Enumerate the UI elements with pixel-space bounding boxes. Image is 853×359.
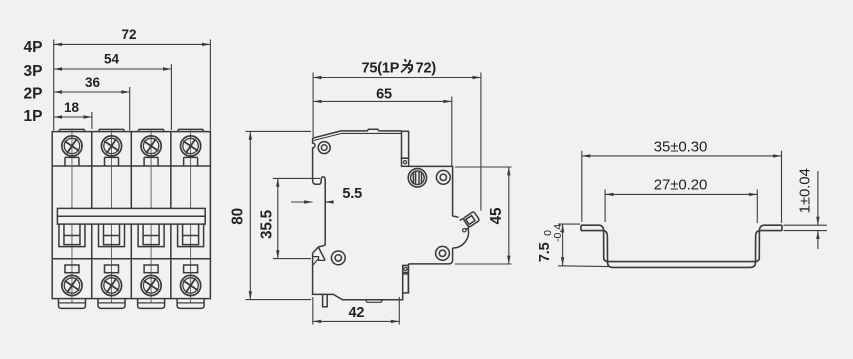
1 extension bottom (784, 230, 827, 232)
svg-text:2P: 2P (24, 86, 43, 103)
lower right outline (313, 253, 409, 300)
1 extension top (784, 224, 827, 226)
arrows 54 (54, 67, 62, 70)
arrows 5.5 (304, 200, 312, 203)
lever pivot dot (463, 229, 466, 232)
extension line face (65) (451, 97, 453, 167)
arrows 35 (582, 154, 590, 157)
dim line 65 (313, 100, 452, 102)
top chamfer inner line (314, 133, 402, 140)
arrows 27 (605, 193, 613, 196)
rivet front-bottom (436, 246, 450, 260)
bottom terminal slot bar (403, 274, 409, 293)
1 dim line upper (817, 171, 819, 225)
arrows 42 (313, 320, 321, 323)
breaker body outline (52, 132, 210, 299)
handle boss arc (453, 216, 469, 248)
dim line 45 (508, 167, 510, 264)
dim 5.5 leader left (291, 201, 313, 203)
rail upper surface (581, 225, 782, 261)
rivet bottom-left (331, 251, 345, 265)
arrows 72 (54, 43, 62, 46)
pole divider 2 (130, 132, 132, 299)
dim 5.5 leader right (325, 201, 333, 203)
7.5 extension bottom (558, 265, 609, 268)
extension line rail right end (781, 151, 783, 223)
svg-text:27±0.20: 27±0.20 (654, 176, 707, 193)
extension line 54 (170, 64, 172, 130)
svg-text:7.5: 7.5 (537, 242, 553, 262)
svg-text:36: 36 (85, 75, 101, 90)
upper right step to face (409, 166, 453, 216)
1 dim line lower (817, 231, 819, 249)
arrows 80 (249, 131, 252, 139)
dim line 7.5 (562, 224, 564, 265)
extension line back (left) (312, 73, 314, 138)
svg-text:54: 54 (104, 52, 120, 67)
pole 1 (58, 129, 85, 308)
dim line 35.5 (277, 178, 279, 258)
top terminal square (402, 158, 409, 166)
dim line 54 (54, 68, 172, 70)
pole 2 (98, 129, 125, 308)
svg-text:-0.4: -0.4 (552, 224, 564, 242)
arrows 35.5 (276, 178, 279, 186)
extension line 18 (91, 112, 93, 129)
dim line 72 (54, 43, 211, 45)
dim text 75(1P为72) (362, 59, 437, 76)
80 extension bottom (246, 299, 312, 301)
tolerance 0/-0.4 (rotated) (542, 224, 564, 242)
extension line 27 left (604, 190, 606, 223)
bottom terminal square (403, 265, 409, 272)
handle cross-bar band (57, 208, 205, 224)
top terminal pin dot (403, 161, 406, 164)
svg-text:35±0.30: 35±0.30 (654, 138, 707, 155)
bottom terminal pin dot (404, 267, 407, 270)
svg-text:4P: 4P (24, 39, 43, 56)
dim line 80 (249, 131, 251, 299)
svg-text:75(1P: 75(1P (362, 61, 400, 77)
pole divider 1 (91, 132, 93, 299)
arrows 36 (54, 90, 62, 93)
svg-text:5.5: 5.5 (342, 186, 362, 202)
svg-text:18: 18 (64, 100, 80, 115)
svg-text:35.5: 35.5 (258, 209, 275, 239)
42 extension right (398, 297, 400, 325)
toggle lever (460, 211, 480, 229)
top edge with lip (341, 129, 402, 131)
dim line 42 (313, 320, 400, 322)
DIN clip claw inner (313, 257, 325, 265)
arrows 75 (313, 76, 321, 79)
arrows 18 (54, 115, 62, 118)
grip circle with ridges (408, 169, 426, 187)
DIN clip claw (313, 245, 326, 260)
svg-text:45: 45 (488, 207, 505, 224)
pole 3 (138, 129, 165, 308)
dim line 35 (582, 155, 782, 157)
rail left end cap (580, 225, 582, 230)
arrows 7.5 (561, 224, 564, 232)
35.5 extension top (273, 177, 320, 179)
hanzi wei (401, 59, 412, 73)
35.5 extension bottom (273, 258, 311, 260)
svg-text:1P: 1P (24, 108, 43, 125)
45 extension top (455, 166, 512, 168)
45 extension bottom (455, 263, 512, 265)
rail right end cap (781, 225, 783, 230)
dim line 75 (313, 77, 481, 79)
bottom foot bump (366, 300, 383, 303)
dim line 36 (54, 91, 130, 93)
svg-text:42: 42 (349, 305, 365, 321)
svg-text:65: 65 (376, 86, 392, 102)
dim line 18 (54, 116, 92, 118)
arrows 65 (313, 100, 321, 103)
top terminal slot bar (402, 131, 409, 158)
svg-text:72): 72) (416, 61, 437, 77)
rail lower surface (581, 231, 782, 268)
arrows 1 (816, 217, 819, 225)
extension line left (53, 40, 55, 131)
top terminal section line (52, 165, 210, 167)
extension line handle tip (480, 73, 482, 211)
rivet front-top (436, 170, 450, 184)
80 extension top (246, 130, 312, 132)
7.5 extension top (558, 223, 580, 225)
lower face (408, 248, 452, 264)
extension line right 72 (209, 40, 211, 131)
extension line 36 (129, 87, 131, 131)
pole 4 (177, 129, 204, 308)
rivet top-left (318, 142, 330, 154)
svg-text:1±0.04: 1±0.04 (797, 168, 814, 213)
arrows 45 (507, 167, 510, 175)
42 extension left (312, 297, 314, 325)
svg-text:80: 80 (229, 208, 246, 225)
dim line 27 (605, 193, 757, 195)
bottom terminal section line (52, 258, 210, 260)
extension line 27 right (756, 190, 758, 224)
extension line rail left end (581, 151, 583, 222)
svg-text:3P: 3P (24, 63, 43, 80)
pole divider 3 (170, 132, 172, 299)
side body outline (313, 131, 341, 245)
svg-text:72: 72 (121, 27, 136, 42)
trip pin (323, 294, 328, 306)
